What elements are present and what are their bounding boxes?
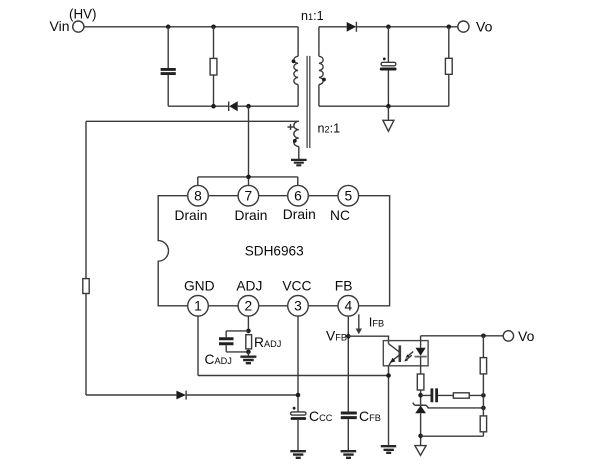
diode snubber D (cathode bar) bbox=[228, 102, 230, 112]
capacitor Ccc (plus dot) bbox=[293, 407, 296, 410]
capacitor CADJ (plates) bbox=[219, 339, 234, 344]
transformer T1 secondary top lead bbox=[318, 27, 320, 57]
capacitor Ccc (top plate hollow) bbox=[291, 412, 306, 415]
diode snubber D (triangle) bbox=[229, 101, 238, 111]
wire pin1 GND drop bbox=[197, 316, 199, 375]
transformer T1 primary bottom lead bbox=[297, 85, 299, 107]
pin 8 (Drain) bbox=[188, 185, 209, 206]
wire opto emitter drop bbox=[388, 366, 390, 445]
svg-text:Drain: Drain bbox=[283, 207, 316, 222]
svg-text:VCC: VCC bbox=[282, 278, 311, 293]
resistor output load (top lead) bbox=[448, 27, 450, 59]
capacitor CFB (bottom lead) bbox=[347, 419, 349, 450]
transformer T1 secondary bottom lead bbox=[318, 85, 320, 107]
resistor LED series (body) bbox=[417, 374, 424, 390]
diode startup (cathode bar) bbox=[185, 391, 187, 400]
resistor output load (body) bbox=[445, 58, 452, 74]
node input cap junction bbox=[166, 25, 171, 30]
wire divider rail bbox=[421, 336, 484, 436]
wire VFB to optocoupler collector bbox=[348, 336, 388, 344]
transformer T1 primary winding bbox=[294, 56, 298, 84]
pin 6 (Drain) bbox=[288, 185, 309, 206]
wire compensation RC bbox=[421, 394, 484, 396]
svg-text:5: 5 bbox=[344, 189, 352, 204]
wire zener ref line bbox=[428, 407, 484, 409]
optocoupler U2 LED (cathode lead) bbox=[420, 357, 422, 374]
diode startup (triangle) bbox=[176, 391, 186, 400]
svg-text:2: 2 bbox=[245, 299, 253, 314]
capacitor output electrolytic (plus dot) bbox=[383, 58, 386, 61]
node compensation junction bbox=[418, 393, 423, 398]
capacitor compensation (plates) bbox=[432, 388, 437, 402]
wire output bottom rail bbox=[319, 105, 449, 107]
ground opto emitter bbox=[381, 446, 396, 453]
wire output top rail bbox=[356, 26, 457, 28]
zener shunt regulator (triangle) bbox=[415, 406, 426, 414]
wire LED to Vo rail bbox=[421, 335, 504, 337]
svg-text:n2:1: n2:1 bbox=[318, 122, 341, 136]
resistor output load (bottom lead) bbox=[448, 74, 450, 106]
svg-text:4: 4 bbox=[344, 299, 352, 314]
resistor RADJ (body) bbox=[246, 335, 252, 349]
wire RADJ ground lead bbox=[247, 352, 249, 356]
svg-text:CADJ: CADJ bbox=[205, 352, 232, 367]
pin 7 (Drain) bbox=[238, 185, 259, 206]
ground Ccc bbox=[290, 451, 306, 458]
ground CFB bbox=[341, 451, 357, 458]
capacitor snubber C (plates) bbox=[161, 69, 176, 73]
optocoupler U2 light arrows bbox=[406, 352, 413, 360]
node ADJ top junction bbox=[246, 329, 251, 334]
svg-text:Vin: Vin bbox=[50, 18, 70, 34]
resistor divider upper (body) bbox=[480, 358, 486, 374]
svg-text:IFB: IFB bbox=[369, 314, 384, 329]
svg-text:CFB: CFB bbox=[359, 408, 381, 424]
svg-text:1: 1 bbox=[194, 299, 202, 314]
node output resistor junction bbox=[447, 25, 452, 30]
diode output rectifier (anode wire) bbox=[319, 26, 347, 28]
pin 1 (GND) bbox=[188, 296, 209, 317]
svg-text:CCC: CCC bbox=[309, 408, 333, 424]
optocoupler U2 LED (anode lead) bbox=[420, 336, 422, 348]
svg-text:GND: GND bbox=[184, 278, 215, 293]
svg-text:Drain: Drain bbox=[175, 208, 208, 223]
node output cap junction bbox=[386, 25, 391, 30]
op-amp U1 SDH6963 outline bbox=[158, 196, 389, 306]
transformer T1 auxiliary winding bbox=[294, 121, 299, 146]
node RC right junction bbox=[481, 393, 486, 398]
wire top input rail bbox=[84, 26, 298, 28]
wire ADJ network bottom bbox=[226, 345, 248, 352]
wire zener anode bbox=[420, 413, 422, 445]
wire pin2 ADJ drop bbox=[247, 316, 249, 331]
svg-text:(HV): (HV) bbox=[69, 7, 97, 22]
capacitor Ccc (bottom lead) bbox=[297, 420, 299, 450]
transformer T1 primary top lead bbox=[297, 27, 299, 57]
terminal Vo (top) bbox=[458, 21, 469, 32]
node ADJ bottom junction bbox=[246, 350, 251, 355]
wire ADJ network top bbox=[226, 331, 248, 337]
wire left rail bbox=[85, 121, 87, 395]
svg-text:7: 7 bbox=[245, 189, 253, 204]
capacitor output electrolytic (bottom plate) bbox=[380, 68, 397, 71]
resistor divider lower (body) bbox=[480, 416, 486, 432]
svg-text:Vo: Vo bbox=[518, 328, 535, 344]
transformer T1 auxiliary phase dot bbox=[293, 139, 297, 143]
node output ground junction bbox=[386, 104, 391, 109]
terminal Vo (bottom) bbox=[503, 331, 513, 341]
svg-text:SDH6963: SDH6963 bbox=[245, 243, 304, 258]
terminal Vin bbox=[73, 21, 84, 32]
capacitor output electrolytic (top plate hollow) bbox=[381, 62, 396, 66]
resistor LED series (bottom lead) bbox=[420, 390, 422, 405]
capacitor CFB (plates) bbox=[341, 413, 357, 418]
pin 3 (VCC) bbox=[288, 296, 309, 317]
optocoupler U2 LED (triangle) bbox=[416, 348, 426, 356]
node anode junction bbox=[418, 434, 423, 439]
resistor startup (left rail body) bbox=[83, 279, 89, 294]
capacitor output electrolytic (bottom lead) bbox=[387, 71, 389, 107]
svg-text:VFB: VFB bbox=[326, 328, 347, 343]
node diode-drain junction bbox=[246, 104, 251, 109]
svg-text:RADJ: RADJ bbox=[254, 335, 281, 350]
svg-text:ADJ: ADJ bbox=[236, 278, 262, 293]
ground RADJ bbox=[240, 357, 256, 364]
pin 2 (ADJ) bbox=[238, 296, 259, 317]
resistor compensation (body) bbox=[453, 393, 469, 398]
svg-text:8: 8 bbox=[194, 189, 202, 204]
wire pin4 FB drop bbox=[347, 316, 349, 412]
transformer T1 primary phase dot bbox=[292, 59, 296, 63]
node emitter GND junction bbox=[386, 373, 391, 378]
node resistor bottom junction bbox=[211, 104, 216, 109]
pin 4 (FB) bbox=[338, 296, 359, 317]
node ref junction bbox=[481, 406, 486, 411]
resistor snubber R (leads) bbox=[213, 27, 215, 106]
node Vo bottom junction bbox=[481, 334, 486, 339]
diode output rectifier (triangle) bbox=[347, 22, 357, 32]
node VFB junction bbox=[346, 334, 351, 339]
zener shunt regulator (cathode bar) bbox=[413, 403, 429, 408]
wire drain T-rail bbox=[198, 177, 298, 186]
wire GND rail bbox=[198, 375, 389, 377]
capacitor output electrolytic (top lead) bbox=[387, 27, 389, 63]
svg-text:FB: FB bbox=[335, 278, 353, 293]
svg-text:NC: NC bbox=[330, 208, 350, 223]
wire VCC bottom feed bbox=[86, 394, 298, 396]
diode output rectifier (cathode bar) bbox=[355, 22, 357, 32]
pin 5 (NC) bbox=[338, 185, 359, 206]
svg-text:Drain: Drain bbox=[235, 208, 268, 223]
wire drain feed vertical bbox=[248, 106, 250, 177]
capacitor snubber C (leads) bbox=[167, 27, 169, 106]
wire pin3 VCC drop bbox=[297, 316, 299, 412]
transformer T1 core bbox=[307, 56, 310, 148]
node snubber resistor junction bbox=[211, 25, 216, 30]
svg-text:3: 3 bbox=[294, 299, 302, 314]
svg-text:Vo: Vo bbox=[476, 18, 493, 34]
wire auxiliary winding feed bbox=[86, 120, 299, 122]
wire snubber bottom rail bbox=[168, 105, 298, 107]
node drain T junction bbox=[246, 175, 251, 180]
optocoupler U2 LED (cathode bar) bbox=[415, 356, 427, 358]
ground auxiliary winding bbox=[291, 160, 307, 165]
optocoupler U2 phototransistor bbox=[389, 344, 400, 366]
ground output (open triangle) bbox=[383, 106, 394, 131]
svg-text:6: 6 bbox=[294, 189, 302, 204]
capacitor Ccc (bottom plate) bbox=[291, 417, 307, 420]
optocoupler U2 box bbox=[383, 341, 428, 366]
transformer T1 auxiliary bottom lead bbox=[298, 147, 300, 160]
transformer T1 secondary winding bbox=[319, 56, 323, 84]
transformer T1 secondary phase dot bbox=[322, 78, 326, 82]
arrow IFB bbox=[358, 314, 360, 330]
svg-text:n1:1: n1:1 bbox=[301, 9, 324, 23]
transformer T1 auxiliary plus mark bbox=[288, 124, 294, 130]
ground zener (open triangle) bbox=[415, 446, 426, 456]
resistor snubber R (body) bbox=[210, 58, 217, 75]
node VCC diode junction bbox=[296, 393, 301, 398]
